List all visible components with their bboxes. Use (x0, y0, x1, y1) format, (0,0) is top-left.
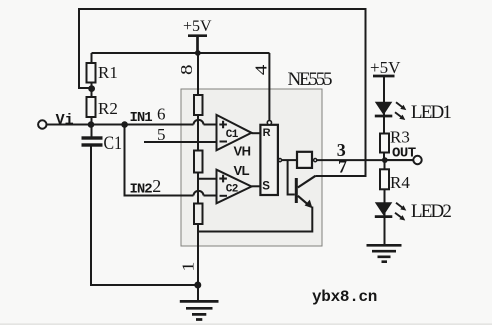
wire LED column right (384, 76, 413, 246)
svg-text:IN1: IN1 (130, 110, 153, 126)
svg-text:R: R (263, 127, 271, 139)
svg-text:VL: VL (234, 163, 250, 178)
comparator C1 (217, 115, 252, 150)
flip-flop output bubble (278, 159, 281, 162)
svg-text:NE555: NE555 (288, 69, 333, 90)
wire C1 to ground rail (91, 145, 198, 286)
svg-text:1: 1 (179, 262, 198, 272)
resistor R4 (380, 169, 410, 192)
svg-text:C1: C1 (226, 129, 239, 141)
svg-text:4: 4 (252, 64, 271, 75)
svg-text:5: 5 (157, 125, 166, 144)
wire +5V rail (pin 8 / pin 4 feed) (92, 52, 270, 54)
LED1 (375, 102, 407, 120)
wire divider column pin8 to pin1 ground (197, 53, 199, 301)
NE555 internal block outline (181, 89, 322, 246)
ground right (367, 245, 402, 261)
svg-text:LED2: LED2 (411, 201, 452, 222)
svg-text:R4: R4 (390, 173, 410, 192)
junction +5V rail (195, 50, 201, 56)
svg-text:Vi: Vi (56, 112, 74, 129)
svg-text:S: S (262, 180, 270, 192)
capacitor C1 (82, 133, 123, 154)
wire pin 3 to OUT (317, 159, 413, 161)
LED2 (375, 202, 407, 220)
resistor R3 (380, 128, 410, 153)
svg-text:OUT: OUT (392, 146, 416, 162)
power +5V right (370, 58, 401, 77)
output buffer U1 (297, 152, 312, 168)
terminal Vi (38, 120, 46, 128)
svg-text:8: 8 (177, 65, 196, 76)
wire outer loop: pin7 top rail to R1/R2 junction (79, 9, 366, 176)
wire internal bottom (emitter to pin1) (198, 207, 313, 232)
resistor R1 (87, 63, 118, 83)
wire divider tap to C2 plus (199, 178, 217, 180)
svg-text:+5V: +5V (370, 58, 401, 77)
bottom edge artifact line (0, 324, 492, 325)
wire transistor base branch (288, 160, 295, 194)
wire pin 5 stub (144, 141, 217, 143)
wire R1/R2/C1 column (91, 53, 93, 138)
svg-text:VH: VH (234, 144, 251, 159)
svg-text:ybx8.cn: ybx8.cn (312, 288, 377, 306)
wire pin 4 drop (268, 53, 270, 120)
comparator C2 (217, 170, 252, 204)
flip-flop RS box (260, 125, 278, 195)
svg-text:C1: C1 (104, 133, 123, 154)
divider resistor top (194, 95, 203, 115)
junction IN1/IN2 branch (121, 121, 128, 128)
wire comparator C1 output (252, 132, 261, 134)
svg-text:2: 2 (152, 176, 161, 196)
ground main (180, 301, 219, 319)
pin 4 inverting circle (267, 121, 271, 125)
svg-text:7: 7 (338, 156, 347, 176)
svg-text:C2: C2 (226, 184, 238, 196)
buffer output bubble (314, 159, 317, 162)
resistor R2 (87, 97, 118, 118)
divider resistor bottom (194, 204, 203, 225)
svg-text:R1: R1 (98, 63, 118, 82)
wire Vi / IN1 (pin 6) with hop over divider (47, 120, 217, 125)
transistor Q1 (discharge) (295, 176, 316, 208)
svg-text:IN2: IN2 (130, 182, 153, 198)
svg-text:LED1: LED1 (411, 102, 452, 123)
wire comparator C2 output (252, 185, 261, 187)
junction ground node (194, 282, 201, 289)
wire IN2 branch (pin 2) with hop over divider (125, 125, 217, 196)
wire pin 7 (316, 175, 367, 177)
junction Vi node (88, 121, 95, 128)
svg-text:R3: R3 (390, 128, 410, 147)
wire flip-flop output to buffer (282, 159, 297, 161)
svg-text:6: 6 (157, 104, 166, 123)
divider resistor middle (194, 151, 203, 173)
junction R1/R2 (88, 85, 95, 92)
terminal OUT (413, 156, 421, 164)
junction OUT node (382, 157, 388, 163)
svg-text:+5V: +5V (183, 18, 212, 35)
power +5V top (183, 18, 212, 53)
svg-text:R2: R2 (98, 99, 118, 118)
